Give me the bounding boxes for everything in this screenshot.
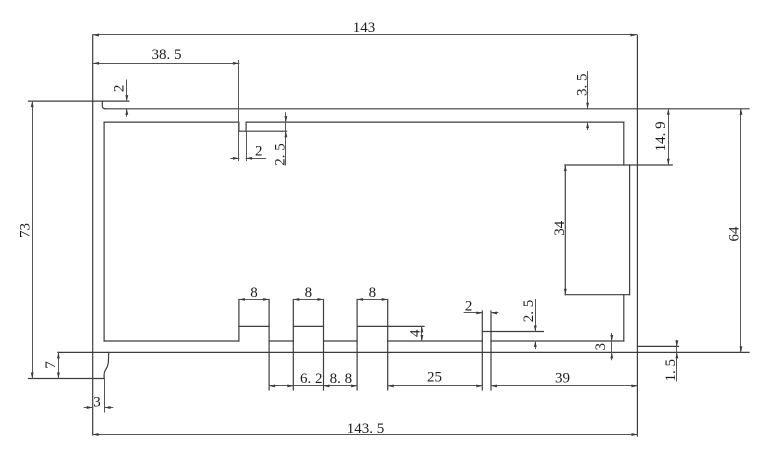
svg-text:7: 7: [43, 361, 59, 369]
inner left wall: [103, 122, 105, 341]
svg-text:2: 2: [255, 143, 263, 159]
svg-text:2. 5: 2. 5: [273, 143, 289, 166]
svg-text:3: 3: [93, 395, 101, 411]
dim 4 arrows: [420, 326, 423, 332]
dim 7 line: [58, 352, 60, 378]
tab bottom edge: [565, 294, 629, 296]
dim 143 arrows: [93, 34, 99, 37]
dim 2.5 bottom rib shaft: [535, 300, 537, 332]
tooth 2 right edge with extension: [323, 299, 325, 390]
dim 14.9 line: [668, 109, 670, 165]
tooth 1 top: [239, 325, 269, 327]
inner bottom edge segment 3: [324, 340, 358, 342]
tab top edge with extension: [565, 164, 673, 166]
dim 38.5 line: [93, 63, 239, 65]
outer bottom edge with extensions: [58, 351, 749, 353]
dim 38.5 arrows: [93, 62, 99, 65]
svg-text:1. 5: 1. 5: [663, 359, 679, 382]
dim 14.9 arrows: [667, 109, 670, 115]
svg-text:3. 5: 3. 5: [574, 74, 590, 97]
dim 39 arrows: [491, 384, 497, 387]
svg-text:34: 34: [552, 220, 568, 236]
dim 2 bottom rib arrows: [476, 311, 482, 314]
foot bottom edge with extension: [29, 378, 105, 380]
tooth 3 top with extension: [357, 325, 424, 327]
inner bottom edge segment 2: [269, 340, 293, 342]
dim 6.2 arrows: [269, 384, 275, 387]
dim 143.5 line: [93, 434, 638, 436]
dim 2 lip arrows: [125, 95, 128, 101]
dim 8.8 arrows: [324, 384, 330, 387]
inner ceiling left segment: [104, 121, 239, 123]
inner bottom edge segment 4: [388, 340, 483, 342]
tooth 3 right edge with extension: [387, 299, 389, 390]
dim 2.5 bottom rib arrows: [534, 326, 537, 332]
dim 3 right shaft: [611, 334, 613, 360]
svg-text:25: 25: [427, 369, 442, 385]
dim 8 tooth3 line: [357, 299, 388, 301]
svg-text:8: 8: [305, 285, 313, 301]
dim 25 arrows: [388, 384, 394, 387]
svg-text:64: 64: [726, 226, 742, 242]
dim 3 bottom-left right extension: [104, 379, 106, 413]
svg-text:2: 2: [465, 299, 473, 315]
dim 2 top rib shafts: [231, 158, 239, 160]
svg-text:2. 5: 2. 5: [521, 300, 537, 323]
dim 8 tooth1 arrows: [239, 298, 245, 301]
tooth 3 left edge with extension: [356, 299, 358, 390]
dim 2.5 top rib shaft: [285, 113, 287, 165]
dim 2 bottom rib shafts: [464, 312, 482, 314]
svg-text:8. 8: 8. 8: [330, 371, 353, 387]
svg-text:3: 3: [593, 343, 609, 351]
dim 25 line: [388, 385, 483, 387]
svg-text:73: 73: [17, 223, 33, 238]
bottom rib right edge with extensions: [490, 311, 492, 390]
dim 143.5 arrows: [93, 433, 99, 436]
dim 1.5 arrows: [675, 340, 678, 346]
outer left edge with extensions: [92, 35, 94, 435]
outer right edge with extensions: [636, 35, 638, 436]
dimension lines: [33, 35, 741, 435]
dim 6.2 and 8.8 line: [269, 385, 357, 387]
svg-text:143: 143: [353, 20, 376, 36]
dim 34 line on tab left edge: [565, 165, 567, 295]
svg-text:4: 4: [407, 329, 423, 337]
dim 2 lip shafts: [126, 80, 128, 101]
dim 8 tooth1 line: [239, 299, 269, 301]
dim 73 arrows: [31, 101, 34, 107]
dim 2 top rib extension verticals: [238, 61, 240, 161]
dim 7 arrows: [57, 352, 60, 358]
dim 39 line: [491, 385, 637, 387]
dim 73 line: [32, 101, 34, 378]
dim 3.5 arrows: [586, 103, 589, 109]
tooth 1 right edge with extension: [268, 299, 270, 390]
lip step and fillet into top edge: [102, 101, 105, 109]
inner bottom edge segment 5: [491, 340, 624, 342]
dim 8 tooth2 line: [293, 299, 323, 301]
svg-text:2: 2: [111, 85, 127, 93]
dim 3 bottom-left shafts: [84, 407, 93, 409]
inner bottom edge segment 1: [104, 340, 239, 342]
tab right edge: [629, 165, 631, 295]
tooth 2 left edge with extension: [292, 299, 294, 390]
tooth 2 top: [293, 325, 323, 327]
foot S-curve right edge: [104, 352, 109, 378]
top edge with right extension: [105, 108, 749, 110]
dim 1.5 shaft: [676, 340, 678, 381]
inner right wall lower: [623, 295, 625, 341]
top rib left edge: [238, 122, 240, 131]
top lip edge with extension line: [29, 100, 129, 102]
dim 64 arrows: [740, 109, 743, 115]
bottom rib left edge with extensions: [481, 311, 483, 390]
svg-text:14. 9: 14. 9: [653, 121, 669, 151]
svg-text:8: 8: [250, 285, 258, 301]
dim 2 top rib arrows: [233, 157, 239, 160]
dim 3 bottom-left arrows: [87, 406, 93, 409]
dim 143 line: [93, 34, 637, 36]
top rib bottom with extension: [239, 130, 287, 132]
dim 8 tooth3 arrows: [357, 298, 363, 301]
svg-text:39: 39: [555, 371, 570, 387]
bottom rib top with extension: [482, 331, 543, 333]
dim 3.5 shafts: [587, 72, 589, 109]
dim 2.5 top rib arrows: [284, 116, 287, 122]
inner right wall upper: [623, 122, 625, 165]
dim 3 right arrows: [610, 335, 613, 341]
top rib right edge: [245, 122, 247, 131]
tooth 1 left edge: [238, 299, 240, 341]
svg-text:6. 2: 6. 2: [300, 371, 323, 387]
svg-text:8: 8: [369, 285, 377, 301]
tab left edge: [564, 165, 566, 295]
dim 34 arrows: [564, 165, 567, 171]
svg-text:143. 5: 143. 5: [347, 421, 385, 437]
inner ceiling right segment: [246, 121, 624, 123]
bottom right step extension line: [637, 345, 678, 347]
dim 4 line: [421, 326, 423, 341]
dim 64 line: [740, 109, 742, 353]
dim 8 tooth2 arrows: [293, 298, 299, 301]
svg-text:38. 5: 38. 5: [152, 47, 182, 63]
